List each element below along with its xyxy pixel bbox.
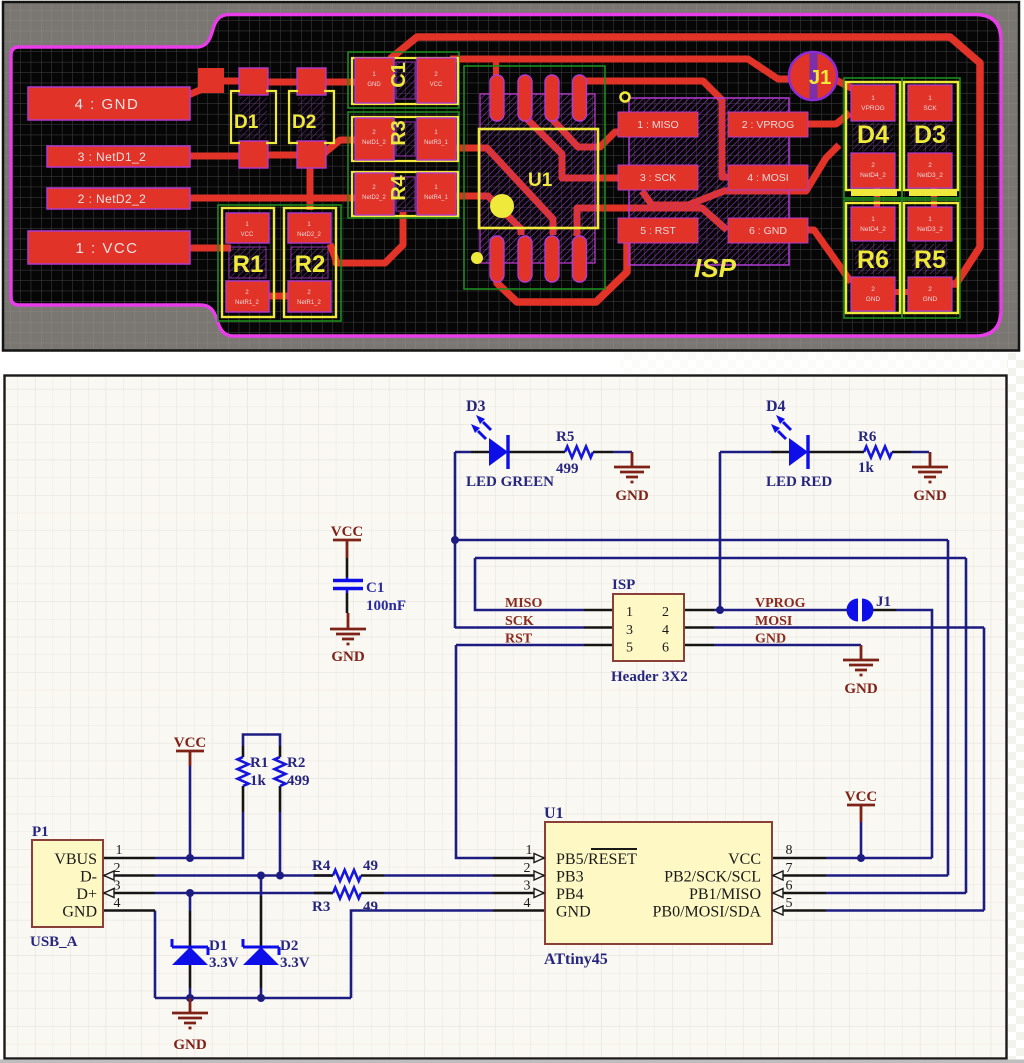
svg-text:7: 7 <box>786 861 793 876</box>
svg-text:VBUS: VBUS <box>54 851 97 868</box>
svg-text:3: 3 <box>626 623 633 638</box>
U1 body hatched area <box>480 94 595 263</box>
svg-text:2: 2 <box>871 286 875 293</box>
svg-text:GND: GND <box>367 82 381 88</box>
trace MOSI U1 pin5 to ISP pad4 <box>581 81 728 177</box>
svg-text:VCC: VCC <box>728 851 761 868</box>
junction dot VPROG/D4 <box>716 606 724 614</box>
wire J1 to VCC vertical x=932 <box>896 610 932 858</box>
resistor R4 (PCB) <box>352 172 458 216</box>
svg-text:NetD1_2: NetD1_2 <box>362 140 386 146</box>
svg-text:NetD2_2: NetD2_2 <box>362 195 386 201</box>
wire RST vertical to U1 pin1 <box>456 645 493 858</box>
trace NetD3_2 D3 to R5 <box>931 184 937 210</box>
wire ISP GND to ground <box>714 644 861 647</box>
svg-text:D3: D3 <box>914 121 946 149</box>
svg-text:R2: R2 <box>295 251 326 278</box>
resistor R2 (PCB) <box>284 208 336 317</box>
diode D3 (PCB) <box>904 82 958 190</box>
svg-text:R1: R1 <box>233 251 264 278</box>
wire D4 right to GND corner <box>911 451 929 454</box>
pin arrows U1 right <box>773 871 783 915</box>
connector J1 (PCB) pad <box>789 52 837 100</box>
svg-text:NetD4_2: NetD4_2 <box>860 172 886 179</box>
pin stubs D3/R5 row <box>471 451 613 454</box>
svg-text:D3: D3 <box>466 398 486 415</box>
svg-text:GND: GND <box>913 488 947 504</box>
svg-text:USB_A: USB_A <box>30 934 78 950</box>
svg-text:GND: GND <box>844 681 878 697</box>
svg-text:R6: R6 <box>857 246 889 274</box>
zener diode D1 <box>172 938 239 971</box>
ISP pad field hatched via area <box>629 98 789 265</box>
trace VPROG ISP pad2 to D4 <box>806 113 850 124</box>
trace GND ISP pad6 to R6 <box>806 230 851 282</box>
wire MISO net horizontal run y=558 <box>475 557 966 560</box>
svg-text:2: 2 <box>928 162 932 169</box>
svg-text:R2: R2 <box>287 755 305 771</box>
wire VPROG vertical D4 x=720 <box>719 452 722 610</box>
IC U1 silkscreen box, pin1 dot, label <box>479 129 598 228</box>
junction dot D1/D+ <box>186 889 194 897</box>
component U1 courtyard (green) <box>464 66 605 289</box>
ISP header pad 2 : VPROG <box>728 112 808 137</box>
wire D4 left to vertical x=720 <box>720 451 771 454</box>
svg-text:6: 6 <box>786 879 793 894</box>
trace MISO U1 pin6 to ISP pad1 <box>552 119 620 147</box>
pin stubs ISP right <box>684 610 714 645</box>
junction dot D1/GND bus <box>186 994 194 1002</box>
fiducial dot (yellow) <box>471 252 483 264</box>
svg-text:5: 5 <box>626 641 633 656</box>
trace GND pad4 to D1 <box>186 81 242 96</box>
trace NetD2_2 R2 to R4 <box>330 212 403 263</box>
wire D- USB pin2 run <box>155 874 333 877</box>
capacitor C1 <box>333 577 406 614</box>
trace GND pad4 block <box>198 68 224 93</box>
svg-text:1k: 1k <box>858 460 875 476</box>
diode D1 (PCB) pads <box>239 68 268 95</box>
USB connector pad 4 : GND <box>28 87 190 120</box>
wire MOSI ISP pin4 run <box>714 626 984 629</box>
pin stubs D2 <box>260 896 263 988</box>
USB connector pad 2 : NetD2_2 <box>47 188 190 209</box>
diode D2 silkscreen brackets and label <box>289 91 334 143</box>
junction dot D2/D- <box>257 872 265 880</box>
trace VPROG J1 to D4 <box>836 80 853 89</box>
resistor R3 <box>312 888 378 916</box>
junction dot D2/GND bus <box>257 994 265 1002</box>
trace NetD1_2 pad3 to D1 <box>190 153 240 160</box>
svg-text:J1: J1 <box>876 594 891 610</box>
svg-text:LED RED: LED RED <box>766 474 832 490</box>
pin arrows U1 left <box>534 854 544 898</box>
trace GND R6-R5 bridge <box>892 289 910 295</box>
pin stubs R4/R3 <box>314 876 384 894</box>
wire D+ R3 to U1 pin4 <box>384 892 493 895</box>
svg-text:GND: GND <box>62 904 97 921</box>
wire SCK to ISP pin3 <box>455 626 584 629</box>
svg-text:D4: D4 <box>857 121 889 149</box>
svg-text:D+: D+ <box>76 886 97 903</box>
svg-text:GND: GND <box>556 904 591 921</box>
resistor R6 <box>858 429 892 476</box>
svg-text:PB0/MOSI/SDA: PB0/MOSI/SDA <box>653 904 762 921</box>
svg-text:1: 1 <box>928 216 932 223</box>
svg-text:PB3: PB3 <box>556 869 584 886</box>
svg-text:VCC: VCC <box>845 789 878 805</box>
wire MOSI vertical to U1 pin5 x=984 <box>983 628 986 911</box>
svg-text:2: 2 <box>928 286 932 293</box>
svg-text:4: 4 <box>662 623 669 638</box>
pin stubs D4/R6 row <box>771 451 911 454</box>
svg-text:VCC: VCC <box>331 524 364 540</box>
zener diode D2 <box>243 938 310 971</box>
svg-text:ISP: ISP <box>694 253 737 283</box>
svg-text:D-: D- <box>80 869 97 886</box>
ISP header pad 3 : SCK <box>618 165 698 190</box>
svg-text:1: 1 <box>871 95 875 102</box>
pin stubs U1 right <box>772 858 826 911</box>
svg-text:SCK: SCK <box>505 614 534 629</box>
svg-text:8: 8 <box>786 843 793 858</box>
schematic sheet <box>5 376 1007 1059</box>
power VCC (R1 area) <box>174 735 207 766</box>
svg-text:GND: GND <box>331 649 365 665</box>
svg-text:D1: D1 <box>234 112 259 133</box>
resistor R3 (PCB) <box>352 117 458 161</box>
LED D3 <box>466 398 554 490</box>
wire U1 pin7 <box>826 874 948 877</box>
resistor R6 (PCB) <box>846 203 900 313</box>
svg-text:NetR1_2: NetR1_2 <box>297 300 321 306</box>
svg-text:2: 2 <box>524 861 531 876</box>
trace VCC pad1 to R1 <box>190 245 231 252</box>
LED D4 <box>766 398 832 490</box>
svg-text:C1: C1 <box>388 62 410 88</box>
ground GND (C1) <box>330 613 366 644</box>
svg-text:R6: R6 <box>858 429 877 445</box>
wire R1-R2 top bracket <box>243 735 280 747</box>
trace NetR4_1 R4 to U1 <box>454 196 521 235</box>
trace SCK ISP pad3 to D3 <box>642 145 839 205</box>
svg-text:MISO: MISO <box>505 596 542 611</box>
wire SCK net horizontal run y=540 <box>455 539 948 542</box>
svg-text:SCK: SCK <box>923 105 937 112</box>
resistor R1 <box>238 755 269 789</box>
svg-text:VCC: VCC <box>241 232 254 238</box>
svg-text:2: 2 <box>871 162 875 169</box>
connector ISP header box <box>611 577 688 685</box>
wire R2 bottom to D- net <box>279 812 282 876</box>
trace NetR1_2 R1-R2 bottoms <box>256 293 300 300</box>
trace VCC stub to U1 pin8 <box>493 59 499 80</box>
wire MISO to ISP pin1 <box>475 558 584 610</box>
wire D3 anode vertical (SCK net) x=455 <box>454 452 457 628</box>
svg-text:VCC: VCC <box>174 735 207 751</box>
trace NetD2_2 pad2 to R4 <box>190 195 368 202</box>
ISP header pad 5 : RST <box>618 218 698 243</box>
pin stubs USB P1 <box>103 858 155 911</box>
wire MISO net vertical to U1 pin6 x=966 <box>965 558 968 893</box>
ground GND (D3/R5) <box>614 452 650 482</box>
svg-text:MOSI: MOSI <box>755 614 792 629</box>
trace GND D1-D2-C1 <box>266 79 358 86</box>
wire VCC symbol stub (R1 area) x=190 <box>189 766 192 858</box>
resistor R2 <box>275 755 310 789</box>
svg-text:2 : NetD2_2: 2 : NetD2_2 <box>78 192 146 206</box>
diode D4 (PCB) <box>846 82 900 190</box>
diode cathode bars (yellow) <box>851 189 897 196</box>
component R3+R4 courtyard (green) <box>348 112 459 218</box>
svg-text:P1: P1 <box>32 824 49 840</box>
svg-text:NetR1_2: NetR1_2 <box>235 300 259 306</box>
svg-text:U1: U1 <box>544 805 564 822</box>
svg-text:6: 6 <box>662 641 669 656</box>
IC U1 box <box>524 805 793 968</box>
svg-text:1k: 1k <box>250 773 267 789</box>
bottom gray strip <box>0 1060 1024 1063</box>
svg-text:PB4: PB4 <box>556 886 584 903</box>
svg-text:NetD2_2: NetD2_2 <box>297 232 321 238</box>
svg-text:PB5/RESET: PB5/RESET <box>556 851 637 868</box>
wire U1 pin5 <box>826 909 984 912</box>
junction dot R2/D- <box>276 872 284 880</box>
svg-text:J1: J1 <box>809 67 831 89</box>
pin stubs ISP left <box>584 610 613 645</box>
svg-text:100nF: 100nF <box>366 598 406 614</box>
IC U1 (PCB) pads <box>490 75 587 282</box>
wire VBUS USB pin1 to R1 <box>155 812 243 858</box>
trace NetR3_1 R3 to U1 <box>454 148 553 235</box>
svg-text:2: 2 <box>662 605 669 620</box>
resistor R5 <box>556 429 593 477</box>
trace GND top ring <box>390 37 980 284</box>
svg-text:499: 499 <box>556 461 579 477</box>
svg-text:499: 499 <box>287 773 310 789</box>
pin stub J1 right <box>873 609 896 612</box>
svg-text:D4: D4 <box>766 398 786 415</box>
svg-text:PB1/MISO: PB1/MISO <box>689 886 761 903</box>
ground GND (ISP) <box>843 645 879 675</box>
svg-text:Header 3X2: Header 3X2 <box>611 669 688 685</box>
ground GND (USB) <box>172 998 208 1028</box>
pin stubs D1 <box>189 911 192 988</box>
svg-text:49: 49 <box>363 899 378 915</box>
trace RST U1 pin1 to ISP pad5 <box>497 242 627 302</box>
svg-text:GND: GND <box>866 296 881 303</box>
svg-text:R4: R4 <box>312 858 331 874</box>
svg-text:NetR4_1: NetR4_1 <box>424 195 448 201</box>
via ring (yellow) <box>621 93 630 102</box>
svg-text:1: 1 <box>871 216 875 223</box>
jumper J1 <box>847 594 892 622</box>
svg-text:R3: R3 <box>388 120 410 146</box>
svg-text:3 : SCK: 3 : SCK <box>640 172 676 184</box>
svg-text:1: 1 <box>626 605 633 620</box>
ground GND (D4/R6) <box>912 452 948 482</box>
wire VPROG ISP pin2 to J1 <box>714 609 848 612</box>
svg-text:NetD4_2: NetD4_2 <box>860 226 886 233</box>
svg-text:R5: R5 <box>914 246 946 274</box>
svg-text:R4: R4 <box>388 174 410 200</box>
trace VCC top <box>450 59 799 79</box>
trace NetD2_2 D2 to R2 top <box>307 166 314 210</box>
USB connector pad 3 : NetD1_2 <box>47 146 190 167</box>
ISP header pad 4 : MOSI <box>728 165 808 190</box>
svg-text:GND: GND <box>615 488 649 504</box>
resistor R4 <box>312 858 378 881</box>
junction dot VCC/VBUS <box>186 854 194 862</box>
wire D2 top stub <box>260 876 263 897</box>
PCB image outer frame and gray margin <box>3 2 1019 351</box>
svg-text:NetD3_2: NetD3_2 <box>917 172 943 179</box>
resistor R5 (PCB) <box>904 203 958 313</box>
svg-text:D2: D2 <box>280 938 298 954</box>
junction dot VCC/U1 pin8 <box>857 854 865 862</box>
trace GND U1 pin4 to ISP pad6 <box>577 208 727 236</box>
svg-text:D2: D2 <box>292 112 316 133</box>
svg-text:VPROG: VPROG <box>755 596 806 611</box>
svg-text:NetR3_1: NetR3_1 <box>424 140 448 146</box>
svg-text:GND: GND <box>755 632 786 647</box>
svg-text:3: 3 <box>524 879 531 894</box>
resistor R1 (PCB) <box>222 208 274 317</box>
wire D1 top stub <box>189 893 192 911</box>
capacitor C1 (PCB) <box>352 58 458 104</box>
svg-text:R1: R1 <box>250 755 268 771</box>
wire USB GND down <box>154 911 157 999</box>
junction dot SCK/D3 <box>451 536 459 544</box>
wire D- R4 to U1 pin3 <box>384 874 493 877</box>
svg-text:PB2/SCK/SCL: PB2/SCK/SCL <box>664 869 761 886</box>
svg-text:3.3V: 3.3V <box>280 955 310 971</box>
wire SCK net vertical to U1 pin7 x=948 <box>947 540 950 876</box>
svg-text:1 : VCC: 1 : VCC <box>75 240 138 257</box>
svg-text:4 : GND: 4 : GND <box>75 96 140 113</box>
wire U1 pin8 VCC <box>826 857 932 860</box>
ISP header pad 1 : MISO <box>618 112 698 137</box>
svg-text:NetD3_2: NetD3_2 <box>917 226 943 233</box>
USB connector pad 1 : VCC <box>28 231 190 264</box>
wire D2 bottom stub <box>260 988 263 998</box>
wire U1 pin6 <box>826 892 966 895</box>
component C1 courtyard (green) <box>348 52 459 108</box>
wire D3 to GND corner <box>455 451 632 454</box>
svg-text:1: 1 <box>116 843 123 858</box>
svg-text:5: 5 <box>786 896 793 911</box>
trace NetD1_2 D1 to R3 <box>266 140 358 155</box>
component R1+R2 courtyard (green) <box>218 205 341 321</box>
svg-text:4: 4 <box>524 896 531 911</box>
wire VCC symbol stub U1 <box>860 822 863 858</box>
svg-text:R3: R3 <box>312 899 330 915</box>
connector P1 USB_A box <box>30 824 123 950</box>
diode D1 silkscreen brackets and label <box>231 91 276 143</box>
wire RST to ISP pin5 <box>456 644 584 647</box>
svg-text:R5: R5 <box>556 429 574 445</box>
PCB board outline (magenta) <box>11 15 1001 337</box>
component D4/D3/R6/R5 courtyards (green) <box>844 78 902 198</box>
wire D1 bottom stub <box>189 988 192 998</box>
svg-text:6 : GND: 6 : GND <box>749 225 787 237</box>
pin stub C1 top/bottom <box>346 558 349 613</box>
svg-text:C1: C1 <box>366 580 384 596</box>
svg-text:VCC: VCC <box>430 82 443 88</box>
ISP header pad 6 : GND <box>728 218 808 243</box>
pin stubs R1/R2 <box>243 746 280 812</box>
pin arrows P1 <box>104 871 114 898</box>
svg-text:U1: U1 <box>528 170 553 191</box>
svg-text:VPROG: VPROG <box>861 105 884 112</box>
svg-text:ATtiny45: ATtiny45 <box>544 951 608 968</box>
power VCC (C1) <box>331 524 364 558</box>
svg-text:RST: RST <box>505 632 533 647</box>
svg-text:ISP: ISP <box>612 577 635 593</box>
svg-text:1 : MISO: 1 : MISO <box>637 119 678 131</box>
trace NetD4_2 D4 to R6 <box>874 184 880 210</box>
svg-text:GND: GND <box>923 296 938 303</box>
power VCC (U1) <box>845 789 878 822</box>
wire GND bus bottom <box>155 997 351 1000</box>
svg-text:GND: GND <box>173 1037 207 1053</box>
svg-text:5 : RST: 5 : RST <box>640 225 676 237</box>
svg-text:3.3V: 3.3V <box>209 955 239 971</box>
right transparency checker strip <box>1007 353 1024 1063</box>
svg-text:LED GREEN: LED GREEN <box>466 474 554 490</box>
svg-text:4 : MOSI: 4 : MOSI <box>747 172 788 184</box>
pin stubs U1 left <box>493 858 545 911</box>
wire GND bus up to U1 pin4 <box>351 911 493 999</box>
wire D+ USB pin3 run <box>155 892 333 895</box>
trace SCK U1 pin7 to ISP pad3 <box>527 119 618 178</box>
svg-text:3 : NetD1_2: 3 : NetD1_2 <box>78 150 146 164</box>
svg-text:1: 1 <box>928 95 932 102</box>
svg-text:1: 1 <box>526 843 533 858</box>
svg-text:49: 49 <box>363 858 378 874</box>
svg-text:2 : VPROG: 2 : VPROG <box>742 119 795 131</box>
svg-text:D1: D1 <box>209 938 227 954</box>
diode D2 (PCB) pads <box>297 68 326 95</box>
PCB board black area <box>11 15 1001 337</box>
